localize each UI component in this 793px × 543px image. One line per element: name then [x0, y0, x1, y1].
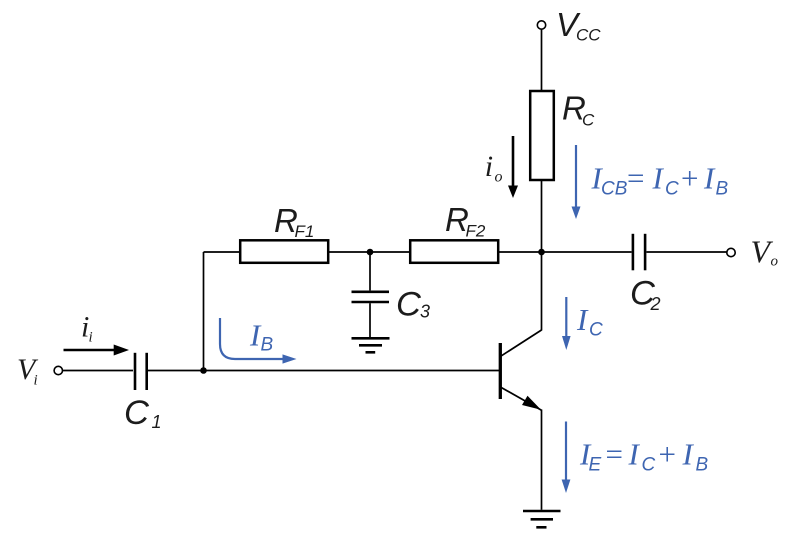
svg-text:i: i — [34, 373, 38, 389]
svg-text:C: C — [582, 110, 595, 129]
svg-text:CB: CB — [601, 179, 628, 200]
svg-text:B: B — [696, 455, 709, 476]
svg-text:CC: CC — [576, 26, 601, 45]
svg-text:I: I — [682, 437, 695, 472]
svg-text:B: B — [716, 179, 729, 200]
svg-text:C: C — [642, 455, 656, 476]
svg-text:F2: F2 — [466, 222, 486, 241]
svg-text:C: C — [124, 394, 150, 432]
svg-text:i: i — [89, 330, 93, 346]
svg-text:I: I — [703, 161, 716, 196]
svg-text:F1: F1 — [295, 222, 315, 241]
svg-text:C: C — [396, 286, 422, 324]
svg-text:3: 3 — [420, 302, 430, 322]
svg-text:C: C — [665, 179, 679, 200]
svg-text:1: 1 — [152, 412, 162, 432]
svg-text:+: + — [657, 437, 678, 472]
svg-text:B: B — [261, 335, 274, 356]
svg-text:=: = — [604, 437, 625, 472]
svg-text:I: I — [576, 302, 589, 337]
svg-text:i: i — [485, 150, 493, 183]
svg-text:o: o — [495, 168, 503, 185]
svg-text:=: = — [625, 161, 646, 196]
svg-text:I: I — [628, 437, 641, 472]
svg-text:E: E — [589, 455, 602, 476]
svg-text:o: o — [771, 254, 779, 270]
svg-text:C: C — [589, 320, 603, 341]
svg-text:2: 2 — [650, 294, 661, 314]
svg-text:+: + — [679, 161, 700, 196]
svg-text:I: I — [652, 161, 665, 196]
